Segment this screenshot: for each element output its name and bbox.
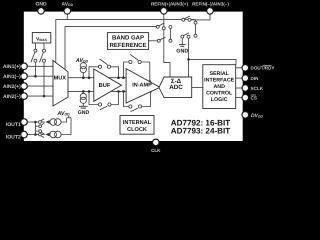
wire IOUT2 line	[27, 134, 38, 136]
junction vbias to AIN2-	[43, 95, 46, 98]
overline CS	[251, 94, 257, 96]
junction IOUT2	[34, 133, 37, 136]
junction buf bypass return A	[117, 76, 120, 79]
wire iout avdd stub	[68, 116, 70, 118]
excitation current source 2	[50, 131, 61, 138]
wire REFIN(+) drop	[163, 11, 165, 26]
internal clock box	[120, 116, 154, 135]
pin REFIN(+)	[161, 8, 168, 15]
wire rail B	[65, 27, 156, 70]
wire vbias switch1 to AIN1-	[34, 62, 36, 76]
wire buf bypass bottom	[89, 91, 98, 104]
wire burnout top stem	[82, 73, 84, 78]
wire AVDD pin drop	[66, 11, 68, 20]
switch S11 blades (iout matrix)	[41, 123, 45, 126]
chip body AD7792/AD7793	[23, 10, 245, 142]
svg-text:IOUT2: IOUT2	[6, 134, 21, 140]
svg-text:ADC: ADC	[169, 84, 183, 91]
svg-text:GND: GND	[35, 1, 47, 7]
pin IOUT1	[21, 119, 28, 126]
junction inamp out bottom	[149, 90, 152, 93]
pin AIN2-	[21, 93, 28, 100]
switch S3 blade (rail A)	[184, 16, 190, 19]
junction IOUT1	[34, 121, 37, 124]
switch buf bottom contacts	[98, 103, 101, 106]
pin AIN1-	[21, 73, 28, 80]
wire serial to DOUT	[236, 67, 243, 69]
serial interface box	[203, 65, 236, 109]
sigma-delta ADC tag	[159, 77, 192, 98]
svg-text:AIN2(–): AIN2(–)	[3, 94, 21, 100]
pin AIN2+	[21, 83, 28, 90]
wire mux out A	[68, 77, 94, 79]
svg-text:AVDD: AVDD	[62, 1, 74, 7]
pin REFIN(-)	[207, 8, 214, 15]
mux trapezoid	[53, 61, 68, 107]
wire AIN1+	[27, 65, 53, 67]
wire dumbbell2	[195, 24, 197, 34]
ground symbol (burnout)	[79, 106, 88, 108]
svg-text:BUF: BUF	[99, 83, 111, 89]
svg-text:CONTROL: CONTROL	[206, 91, 233, 97]
wire vbias stub1	[34, 43, 36, 49]
burnout current source top (AVDD)	[80, 63, 86, 73]
svg-text:REFIN(–)/AIN3(–): REFIN(–)/AIN3(–)	[192, 1, 229, 6]
junction ref tap	[187, 58, 190, 61]
pin IOUT2	[21, 131, 28, 138]
pins: top	[21, 8, 249, 146]
wire ref tap to serial box	[189, 59, 237, 64]
buf triangle	[94, 69, 122, 101]
svg-text:CLK: CLK	[151, 148, 161, 153]
outside labels (white)	[3, 1, 275, 153]
wire line A between amps	[109, 77, 127, 79]
wire ADC to serial	[192, 86, 203, 88]
wire AIN2-	[27, 95, 53, 97]
junction buf bypass tap B	[88, 90, 91, 93]
wire ref+ down to ADC	[164, 30, 170, 77]
dumbbell2 contacts	[194, 21, 197, 24]
svg-text:GND: GND	[78, 110, 90, 116]
svg-text:MUX: MUX	[54, 76, 67, 82]
junction inamp out top	[149, 80, 152, 83]
switch S9 blade (vbias1)	[31, 53, 35, 63]
junction burnout bottom	[82, 90, 85, 93]
wire serial to SCLK	[236, 87, 243, 89]
wire buf bypass top	[89, 67, 98, 78]
svg-text:AIN1(–): AIN1(–)	[3, 74, 21, 80]
wire AIN2+	[27, 85, 53, 87]
arrow IOUT2	[45, 133, 49, 137]
switch S7 blade (inamp top)	[130, 54, 138, 60]
ground symbol (ref area)	[179, 45, 186, 47]
wire rail A to dumbbell2	[191, 19, 196, 21]
switch inamp top contacts	[129, 60, 132, 63]
switch S1 ref+ contacts	[156, 25, 159, 28]
wire vbias switch2 to AIN2-	[43, 62, 45, 96]
junction buf bypass tap A	[88, 76, 91, 79]
junction buf bypass return B	[117, 90, 120, 93]
wire band gap output	[149, 40, 157, 42]
svg-text:SERIAL: SERIAL	[209, 71, 229, 77]
switch S4 blade (gnd ref)	[183, 33, 189, 36]
svg-text:GND: GND	[176, 48, 188, 54]
wire AIN1-	[27, 75, 53, 77]
switch S10 blade (vbias2)	[40, 53, 44, 63]
svg-text:SCLK: SCLK	[251, 86, 264, 91]
svg-text:INTERNAL: INTERNAL	[123, 120, 152, 126]
svg-text:AD7793: 24-BIT: AD7793: 24-BIT	[171, 127, 230, 136]
wire ref- vertical to ADC	[188, 38, 190, 77]
wire vbias stub2	[43, 43, 45, 49]
svg-text:BAND GAP: BAND GAP	[112, 35, 144, 42]
wire iout switch stubs	[35, 125, 38, 127]
svg-text:AIN1(+): AIN1(+)	[3, 64, 21, 70]
wire AVDD rail A	[56, 20, 196, 63]
wire REFIN(-) drop	[196, 11, 211, 21]
pin GND top	[38, 8, 45, 15]
switch inamp bottom contacts	[129, 105, 132, 108]
svg-text:AIN2(+): AIN2(+)	[3, 84, 21, 90]
wire line B between amps	[110, 90, 126, 92]
switch dumbbell1 bottom contact	[169, 39, 172, 42]
switch S1 blade	[159, 23, 165, 26]
pin AVDD top	[64, 8, 71, 15]
in-amp triangle	[126, 69, 160, 104]
wire inamp bypass bottom	[124, 91, 129, 106]
pin DIN	[242, 75, 249, 82]
switch iout contacts	[39, 121, 42, 124]
svg-text:LOGIC: LOGIC	[211, 97, 228, 103]
svg-text:CS: CS	[251, 95, 257, 100]
switch S6 blade (buf bottom)	[100, 106, 107, 109]
wire iout crossbar	[34, 122, 36, 135]
svg-text:IOUT1: IOUT1	[6, 122, 21, 128]
switch S8 blade (inamp bottom)	[131, 108, 138, 111]
svg-text:IN-AMP: IN-AMP	[132, 83, 152, 89]
svg-text:VBIAS: VBIAS	[36, 36, 47, 42]
pin DVDD	[242, 112, 249, 119]
junction inamp bypass tap B	[122, 90, 125, 93]
wire mux out B	[68, 90, 94, 92]
pin CS	[242, 94, 249, 101]
wire gnd stem (ref area)	[181, 38, 183, 44]
pin AIN1+	[21, 63, 28, 70]
pin CLK	[153, 139, 160, 146]
wire serial to DIN	[236, 77, 243, 79]
wire inamp bypass top	[124, 62, 129, 78]
switch band gap row2	[157, 39, 160, 42]
svg-text:INTERFACE: INTERFACE	[204, 78, 234, 84]
arrow IOUT1	[45, 120, 49, 124]
pin DOUT/RDY	[242, 65, 249, 72]
wire burnout bottom stems	[82, 91, 84, 93]
band gap reference box	[107, 33, 148, 50]
svg-text:DOUT/RDY: DOUT/RDY	[251, 66, 275, 71]
excitation current source 1	[50, 119, 61, 126]
junction vbias to AIN1-	[34, 75, 37, 78]
junction burnout top	[82, 76, 85, 79]
wire serial to CS	[236, 97, 243, 99]
wire iout tie bar	[67, 117, 71, 119]
svg-text:AND: AND	[213, 84, 225, 90]
svg-text:REFIN(+)/AIN3(+): REFIN(+)/AIN3(+)	[151, 1, 188, 6]
svg-text:DIN: DIN	[251, 76, 260, 81]
switch rail A contacts	[182, 18, 185, 21]
junction inamp bypass tap A	[122, 76, 125, 79]
svg-text:CLOCK: CLOCK	[127, 127, 147, 133]
wire IOUT1 line	[27, 121, 38, 123]
burnout current source bottom + gnd	[80, 93, 86, 103]
switch vbias1 contacts	[34, 49, 37, 52]
overline RDY	[263, 64, 272, 66]
switch gnd ref contacts	[181, 35, 184, 38]
wire dumbbell1	[169, 29, 171, 40]
svg-text:REFERENCE: REFERENCE	[109, 42, 146, 49]
switch buf top contacts	[98, 65, 101, 68]
svg-text:DVDD: DVDD	[251, 113, 263, 119]
switch vbias2 contacts	[43, 49, 46, 52]
switch S5 blade (buf top)	[100, 59, 108, 65]
pin SCLK	[242, 85, 249, 92]
switch S2 blade (band gap)	[160, 37, 166, 40]
VBIAS box	[32, 33, 51, 44]
